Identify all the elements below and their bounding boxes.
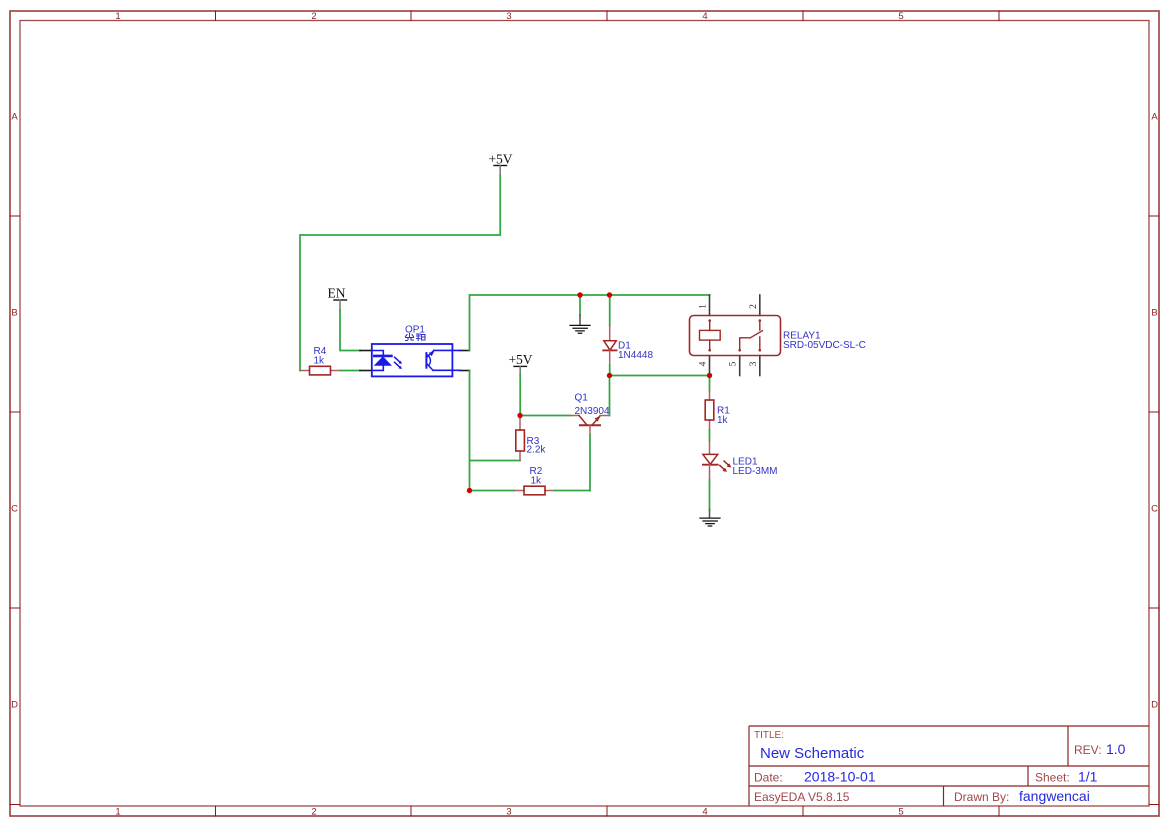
wire R2 left — [470, 490, 515, 492]
svg-text:1k: 1k — [717, 415, 729, 426]
svg-text:EasyEDA V5.8.15: EasyEDA V5.8.15 — [754, 790, 850, 804]
pin 3 stub — [460, 370, 470, 372]
left row ticks — [10, 216, 20, 805]
svg-text:A: A — [11, 112, 18, 123]
svg-text:5: 5 — [898, 807, 903, 818]
svg-text:C: C — [11, 504, 18, 515]
svg-text:SRD-05VDC-SL-C: SRD-05VDC-SL-C — [783, 340, 866, 351]
svg-text:REV:: REV: — [1074, 743, 1102, 757]
node junction top GND — [577, 292, 582, 297]
resistor R2 — [514, 486, 555, 495]
wire base node to Q1 — [520, 415, 571, 417]
bottom column ticks — [216, 806, 1000, 816]
ruler numbers top — [115, 11, 903, 22]
svg-text:1k: 1k — [531, 476, 543, 487]
node junction top D1 — [607, 292, 612, 297]
ruler letters left — [11, 112, 18, 711]
ground GND1 — [570, 295, 590, 333]
svg-text:TITLE:: TITLE: — [754, 730, 784, 741]
internal phototransistor — [425, 353, 427, 368]
power +5V top — [488, 152, 512, 177]
svg-text:2: 2 — [749, 304, 759, 309]
svg-text:Date:: Date: — [754, 771, 783, 785]
wire EN to OP1 pin1 — [340, 310, 360, 351]
pin 3 line — [759, 356, 761, 376]
right row ticks — [1149, 216, 1159, 805]
pin 4 stub — [460, 350, 470, 352]
svg-text:D: D — [11, 700, 18, 711]
svg-text:1: 1 — [115, 807, 120, 818]
diode D1 — [603, 295, 616, 376]
svg-text:1.0: 1.0 — [1106, 741, 1126, 757]
body box — [372, 344, 453, 376]
pin 1 line — [709, 295, 711, 316]
svg-text:EN: EN — [328, 286, 346, 301]
TITLE BLOCK — [749, 726, 1149, 806]
svg-text:Q1: Q1 — [575, 393, 589, 404]
svg-text:A: A — [1151, 112, 1158, 123]
svg-text:4: 4 — [702, 11, 707, 22]
power +5V mid — [508, 352, 532, 375]
svg-text:OP1: OP1 — [405, 325, 425, 336]
svg-text:1N4448: 1N4448 — [618, 350, 653, 361]
svg-text:2N3904: 2N3904 — [575, 406, 610, 417]
ruler letters right — [1151, 112, 1158, 711]
pin 2 line — [759, 295, 761, 316]
svg-text:fangwencai: fangwencai — [1019, 788, 1090, 804]
wire relay pin4 down to R1 — [709, 376, 711, 391]
svg-text:C: C — [1151, 504, 1158, 515]
wire OP1 pin4 up to top rail — [469, 370, 471, 372]
relay body — [690, 316, 781, 356]
svg-text:5: 5 — [729, 361, 739, 366]
wire D1 to relay pin4 — [610, 375, 710, 377]
svg-text:D: D — [1151, 700, 1158, 711]
svg-text:New Schematic: New Schematic — [760, 745, 865, 762]
svg-text:LED-3MM: LED-3MM — [733, 466, 778, 477]
wire Q1 collector up — [609, 376, 611, 416]
svg-text:1: 1 — [115, 11, 120, 22]
svg-text:Drawn By:: Drawn By: — [954, 790, 1009, 804]
svg-text:2.2k: 2.2k — [527, 445, 547, 456]
wire LED1 to ground — [709, 480, 711, 510]
node junction D1 bottom — [607, 373, 612, 378]
wire +5V to R4 — [300, 176, 500, 371]
CIRCUIT — [300, 152, 866, 527]
wire Q1 emitter down — [589, 435, 591, 491]
wire R4 to OP1 pin2 — [341, 370, 361, 372]
svg-text:2018-10-01: 2018-10-01 — [804, 769, 876, 785]
resistor R3 — [516, 418, 525, 461]
svg-text:Sheet:: Sheet: — [1035, 771, 1070, 785]
node junction R2 left — [467, 488, 472, 493]
svg-text:3: 3 — [506, 807, 511, 818]
node junction base R3 — [517, 413, 522, 418]
svg-text:3: 3 — [506, 11, 511, 22]
pin 5 line — [739, 356, 741, 376]
net label EN — [328, 286, 347, 311]
svg-text:5: 5 — [898, 11, 903, 22]
pin 2 stub — [360, 370, 372, 372]
top column ticks — [216, 11, 1000, 21]
svg-text:4: 4 — [702, 807, 707, 818]
svg-text:+5V: +5V — [508, 352, 532, 367]
svg-text:2: 2 — [311, 807, 316, 818]
node junction relay pin4 — [707, 373, 712, 378]
svg-text:1/1: 1/1 — [1078, 769, 1098, 785]
transistor Q1 — [571, 416, 610, 436]
led arrows — [720, 461, 728, 469]
svg-text:2: 2 — [311, 11, 316, 22]
svg-text:1k: 1k — [314, 356, 326, 367]
svg-text:4: 4 — [699, 361, 709, 366]
svg-text:+5V: +5V — [488, 152, 512, 167]
label guangou — [406, 334, 426, 341]
ruler numbers bottom — [115, 807, 903, 818]
svg-text:B: B — [11, 308, 17, 319]
svg-text:3: 3 — [749, 361, 759, 366]
light arrows — [395, 357, 400, 367]
led LED1 — [703, 441, 731, 481]
relay RELAY1 — [690, 295, 781, 376]
ground GND2 — [700, 510, 720, 527]
svg-text:B: B — [1151, 308, 1157, 319]
svg-text:1: 1 — [699, 304, 709, 309]
optocoupler U OP1 — [360, 344, 470, 376]
wire R2 right to Q1 emitter — [555, 490, 590, 492]
resistor R4 — [300, 366, 341, 375]
internal led — [372, 351, 383, 371]
switch — [759, 319, 762, 322]
pin 1 stub — [360, 350, 372, 352]
wire R1 to LED1 — [709, 430, 711, 441]
pin 4 line — [709, 356, 711, 376]
wire OP1 pin3 down — [470, 371, 521, 491]
coil — [708, 319, 711, 322]
wire +5V to base node — [519, 375, 521, 416]
resistor R1 — [705, 391, 714, 431]
